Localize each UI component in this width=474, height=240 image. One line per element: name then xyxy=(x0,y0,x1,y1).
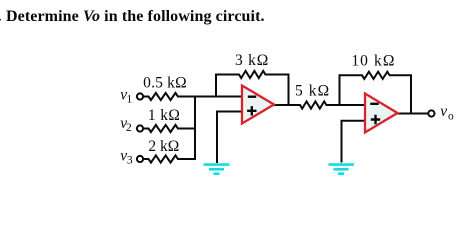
svg-text:3: 3 xyxy=(127,155,133,167)
svg-text:5 kΩ: 5 kΩ xyxy=(295,83,330,100)
svg-text:v: v xyxy=(440,103,447,120)
svg-text:3 kΩ: 3 kΩ xyxy=(235,52,269,69)
svg-text:.: . xyxy=(0,8,2,25)
svg-text:10 kΩ: 10 kΩ xyxy=(351,53,395,70)
svg-text:1 kΩ: 1 kΩ xyxy=(148,107,181,124)
svg-text:1: 1 xyxy=(127,94,133,106)
svg-text:2: 2 xyxy=(126,122,132,134)
svg-text:2 kΩ: 2 kΩ xyxy=(148,138,179,155)
svg-text:0.5 kΩ: 0.5 kΩ xyxy=(143,75,187,92)
svg-text:o: o xyxy=(448,111,454,123)
svg-text:Determine Vo in the following: Determine Vo in the following circuit. xyxy=(6,8,265,25)
